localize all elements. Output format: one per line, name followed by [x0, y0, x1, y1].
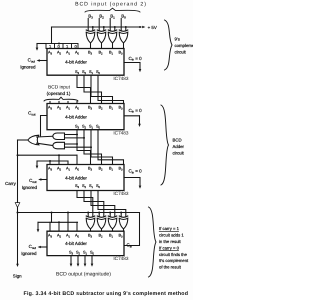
wire correction feed to U3 A3/A1 — [37, 160, 68, 165]
and gate G2 (S3.S1) — [53, 142, 65, 149]
svg-text:IC7483: IC7483 — [113, 191, 129, 196]
wire C_out of U1 (ignored) — [37, 59, 47, 62]
node constant 1010 input (adder U1 A inputs) — [37, 43, 78, 50]
wire operand-2 inputs to XOR gates — [88, 19, 121, 31]
svg-text:If carry = 0: If carry = 0 — [159, 245, 180, 250]
wire Cin of U1 to logic 0 — [124, 63, 141, 73]
xor gate row2 #2 (result complement) — [108, 216, 117, 229]
svg-text:4-bit Adder: 4-bit Adder — [65, 114, 87, 119]
label C_out (U2) — [28, 111, 36, 117]
wire Cin of U3 to logic 0 — [124, 178, 141, 189]
svg-text:4-bit Adder: 4-bit Adder — [65, 241, 87, 246]
label carry behaviour annotation — [159, 226, 189, 269]
xor gate row1 #4 (B3 complement) — [86, 30, 95, 43]
wire BCD outputs — [70, 256, 94, 267]
svg-text:If carry = 1: If carry = 1 — [159, 226, 180, 231]
svg-text:BCD output (magnitude): BCD output (magnitude) — [56, 271, 111, 277]
wire +5V rail drop to constant inputs — [51, 27, 53, 44]
wire G2 inputs from S3 and S1 — [65, 143, 93, 148]
wire tie-off arrow at U3 A inputs — [36, 161, 39, 169]
label Cin = 0 (U1) — [129, 56, 143, 62]
svg-text:Carry: Carry — [5, 181, 17, 186]
wire operand-1 inputs to U2 A inputs — [50, 102, 77, 104]
svg-text:Cout: Cout — [28, 57, 36, 63]
wire XOR row2 outputs to U4 B inputs — [91, 229, 124, 231]
svg-text:IC7483: IC7483 — [113, 130, 129, 135]
wire U1 sum outputs to U2 B inputs — [77, 75, 124, 103]
node Sign output arrow — [13, 264, 22, 279]
svg-text:in the result: in the result — [159, 239, 181, 244]
xor gate row1 #1 (B0 complement) — [119, 30, 128, 43]
label Cin (U4) — [127, 242, 133, 248]
svg-text:BCD input (operand 2): BCD input (operand 2) — [75, 1, 147, 7]
wire C_out of U4 (ignored) — [38, 246, 47, 249]
xor gate row2 #3 (result complement) — [97, 216, 106, 229]
brace over operand-2 inputs — [85, 8, 140, 12]
svg-text:BCD: BCD — [173, 138, 182, 143]
wire carry from G3 to carry rail — [18, 139, 28, 141]
node BCD input (operand 1) header — [47, 84, 71, 96]
svg-text:B1: B1 — [110, 14, 115, 20]
label IC7483 (U2) — [113, 130, 129, 135]
svg-text:4-bit Adder: 4-bit Adder — [65, 60, 87, 65]
xor gate row1 #3 (B2 complement) — [97, 30, 106, 43]
wire +5V rail — [52, 26, 146, 30]
xor gate row2 #1 (result complement) — [119, 216, 128, 229]
label C_out Ignored (U3) — [22, 178, 38, 190]
or gate G3 (carry detect) — [28, 135, 39, 145]
svg-text:of the result: of the result — [159, 265, 182, 270]
wire carry rail (vertical) — [17, 140, 19, 264]
svg-text:4-bit Adder: 4-bit Adder — [65, 175, 87, 180]
wire G1 inputs from S3 and S2 — [65, 134, 86, 139]
svg-text:Cin = 0: Cin = 0 — [129, 56, 143, 62]
wire C_out of U3 (ignored) — [38, 178, 47, 181]
svg-text:IC7483: IC7483 — [113, 76, 129, 81]
svg-text:Cin: Cin — [127, 242, 133, 248]
label figure caption — [24, 291, 189, 297]
svg-text:+ 5V: + 5V — [148, 25, 157, 30]
wire tie-off arrow at U4 A inputs — [37, 222, 40, 232]
label C_out Ignored (U4) — [21, 244, 37, 256]
4-bit adder U3 (IC7483, BCD adder correction stage) — [47, 165, 124, 191]
brace result correction circuit — [149, 207, 157, 277]
wire carry to U3 A2/A0 — [17, 154, 78, 164]
node operand-2 input labels B3 B2 B1 B0 — [88, 14, 126, 20]
svg-text:circuit: circuit — [175, 50, 187, 55]
svg-text:B2: B2 — [99, 14, 104, 20]
label C_out Ignored (U1) — [20, 57, 36, 69]
wire Cin of U2 to logic 0 — [124, 116, 141, 127]
xor gate row1 #2 (B1 complement) — [108, 30, 117, 43]
svg-text:B3: B3 — [88, 14, 93, 20]
svg-text:Cin = 0: Cin = 0 — [129, 169, 143, 175]
and gate G1 (S3.S2) — [53, 133, 65, 140]
wire C_out of U2 to OR gate G3 — [41, 116, 48, 136]
xor gate row2 #4 (result complement) — [86, 216, 95, 229]
svg-text:Cout: Cout — [29, 178, 37, 184]
svg-text:IC7483: IC7483 — [113, 256, 129, 261]
svg-text:circuit: circuit — [173, 151, 185, 156]
svg-text:B0: B0 — [121, 14, 126, 20]
wire carry drop to U4 A inputs (left) — [51, 213, 53, 223]
label BCD output (magnitude) — [56, 271, 111, 277]
4-bit adder U2 (IC7483, BCD adder stage 1) — [47, 104, 124, 130]
label 9's complement circuit — [175, 37, 199, 55]
wire carry drop to U4 A inputs (right) — [67, 213, 69, 232]
wire U4 A-input bus — [38, 221, 78, 231]
svg-text:complement: complement — [175, 43, 194, 48]
wire U3 sum outputs to complement XOR gates — [77, 191, 126, 217]
wire carry branch to complement XOR gates — [17, 212, 140, 217]
power +5V — [148, 25, 157, 30]
svg-text:circuit finds the: circuit finds the — [159, 252, 188, 257]
svg-text:Cout: Cout — [29, 244, 37, 250]
svg-text:Fig. 3.34 4-bit BCD subtractor: Fig. 3.34 4-bit BCD subtractor using 9's… — [24, 291, 189, 297]
wire G2 output to G3 — [37, 143, 53, 145]
brace over operand-1 inputs — [44, 97, 78, 101]
wire tie-off arrow at adder U1 A inputs — [36, 44, 39, 51]
wire G1 output to G3 — [37, 135, 53, 138]
4-bit adder U4 (IC7483, output stage) — [47, 231, 124, 255]
4-bit adder U1 (IC7483, 9's complement stage) — [47, 49, 124, 76]
svg-text:Ignored: Ignored — [22, 185, 38, 190]
wire XOR row1 outputs to adder U1 B inputs — [91, 43, 124, 49]
svg-text:(operand 1): (operand 1) — [47, 91, 71, 96]
svg-text:Ignored: Ignored — [21, 251, 37, 256]
label Carry — [5, 181, 17, 186]
wire carry to Cin of U4 — [124, 213, 140, 246]
svg-text:Adder: Adder — [173, 144, 185, 149]
svg-text:circuit adds 1: circuit adds 1 — [159, 233, 184, 238]
label IC7483 (U4) — [113, 256, 129, 261]
svg-text:Cin = 0: Cin = 0 — [129, 108, 143, 114]
svg-text:BCD input: BCD input — [48, 84, 71, 90]
svg-text:Cout: Cout — [28, 111, 36, 117]
svg-text:9's: 9's — [175, 37, 180, 42]
label BCD Adder circuit — [173, 138, 185, 156]
node carry direction marker — [15, 203, 20, 208]
label IC7483 (U1) — [113, 76, 129, 81]
svg-text:9's complement: 9's complement — [159, 258, 189, 263]
svg-text:Sign: Sign — [13, 274, 22, 279]
label IC7483 (U3) — [113, 191, 129, 196]
label Cin = 0 (U2) — [129, 108, 143, 114]
brace BCD adder circuit — [161, 105, 169, 185]
wire U2 sum outputs to U3 B inputs — [77, 130, 124, 165]
brace 9's complement circuit — [165, 20, 173, 70]
label Cin = 0 (U3) — [129, 169, 143, 175]
node BCD input (operand 2) header — [75, 1, 147, 7]
svg-text:Ignored: Ignored — [20, 64, 36, 69]
